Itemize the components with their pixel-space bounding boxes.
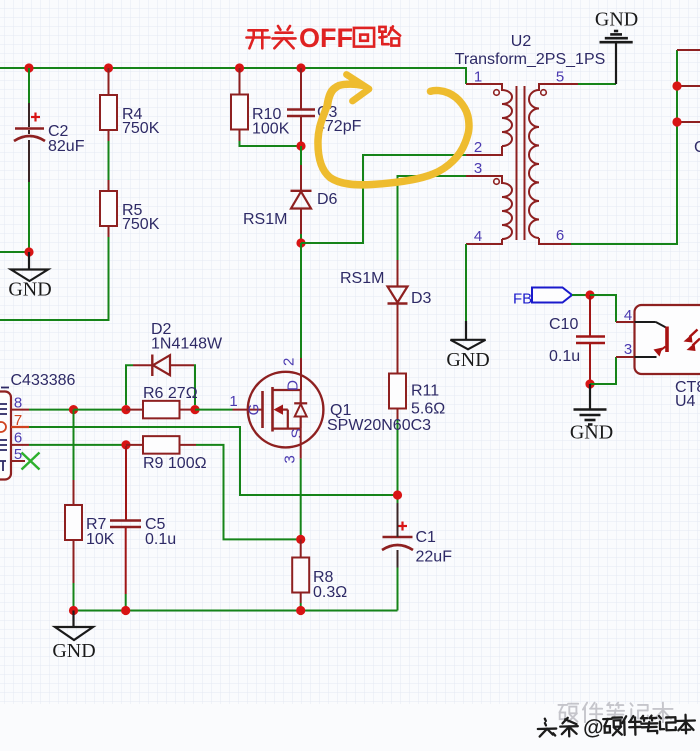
svg-text:U2: U2 [511, 33, 532, 50]
wire C1 bottom lead [397, 568, 399, 611]
svg-text:Transform_2PS_1PS: Transform_2PS_1PS [455, 51, 606, 68]
svg-text:4: 4 [624, 307, 632, 324]
node R9 left / C5 [121, 440, 130, 449]
svg-text:3: 3 [474, 160, 482, 177]
diode D2 [152, 355, 170, 377]
capacitor C5 [110, 519, 141, 522]
svg-text:5: 5 [556, 69, 564, 86]
ground GND top-left [28, 252, 30, 269]
node R6 left / D2 left [121, 405, 130, 414]
svg-text:C6: C6 [694, 139, 700, 156]
node D6 / drain / pin2 branch [296, 238, 305, 247]
node rail / C5 [121, 606, 130, 615]
svg-text:C10: C10 [549, 316, 578, 333]
transformer U2 secondary winding (pins 5-6) [529, 84, 578, 244]
resistor R8 [300, 539, 302, 557]
svg-text:U4: U4 [675, 393, 696, 410]
node top rail / C2 [24, 63, 33, 72]
watermark ghost 硬件笔记本 [558, 703, 672, 723]
transformer U2 core [516, 86, 518, 240]
wire C5 bottom lead [125, 527, 127, 594]
earth ground GND below C10 [574, 384, 607, 425]
power ground GND top-right [600, 31, 633, 42]
svg-text:10K: 10K [86, 531, 115, 548]
connector U1 C433386 body [0, 392, 11, 480]
node top rail / R4 [104, 63, 113, 72]
svg-text:GND: GND [570, 422, 613, 444]
yellow hand-drawn loop annotation [318, 88, 469, 185]
wire pin 5 to GND [578, 83, 616, 85]
optocoupler U4 phototransistor [635, 322, 668, 357]
svg-text:FB: FB [513, 291, 532, 308]
wire C10 bottom lead [589, 343, 591, 384]
node R6 right / gate [190, 405, 199, 414]
resistor R11 [389, 374, 406, 409]
wire off-screen pin top right [677, 49, 700, 51]
wire C2 top lead [28, 68, 30, 103]
optocoupler U4 light arrows [684, 330, 700, 352]
wire C1 top lead [397, 503, 399, 537]
wire R9 right to source node [196, 445, 301, 540]
wire C2 bottom lead [28, 140, 30, 182]
wire D2 right branch [170, 364, 194, 366]
svg-text:2: 2 [474, 139, 482, 156]
optocoupler U4 body [635, 305, 700, 374]
svg-text:@: @ [583, 716, 604, 740]
svg-text:D3: D3 [411, 290, 432, 307]
svg-text:1: 1 [474, 69, 482, 86]
svg-text:750K: 750K [122, 120, 160, 137]
wire R5 bottom to left edge [108, 226, 110, 237]
svg-text:6: 6 [14, 430, 22, 447]
svg-text:5.6Ω: 5.6Ω [411, 401, 445, 418]
wire off-screen pin stub 2 [677, 121, 700, 123]
wire D6 bottom [300, 209, 302, 235]
svg-text:5: 5 [14, 446, 22, 463]
svg-text:R11: R11 [411, 383, 439, 400]
wire C3 node to D6 [300, 146, 302, 165]
svg-text:4: 4 [474, 228, 482, 245]
wire pin 7 net to C1 node [29, 427, 398, 495]
wire gate net [195, 409, 233, 411]
wire R11 bottom [397, 409, 399, 421]
node top rail / R10 [235, 63, 244, 72]
node FB / C10 [585, 290, 594, 299]
ground GND mid (transformer) [451, 340, 486, 350]
wire C10 node to opto pin 4 [590, 295, 616, 322]
svg-text:1N4148W: 1N4148W [151, 336, 223, 353]
red title text 开关OFF回路 [247, 23, 401, 53]
wire D3 to R11 [397, 304, 399, 374]
svg-text:82uF: 82uF [48, 138, 85, 155]
svg-text:SPW20N60C3: SPW20N60C3 [327, 417, 431, 434]
svg-text:750K: 750K [122, 216, 160, 233]
wire FB to C10 node [572, 294, 590, 296]
node right edge 1 [672, 81, 681, 90]
svg-text:2: 2 [280, 358, 297, 366]
svg-text:22uF: 22uF [416, 549, 453, 566]
svg-text:0.3Ω: 0.3Ω [313, 584, 347, 601]
node rail / R7 / GND [69, 606, 78, 615]
svg-text:RS1M: RS1M [243, 211, 287, 228]
wire D2 left branch [133, 364, 152, 366]
transistor Q1 SPW20N60C3 [248, 372, 324, 448]
svg-text:GND: GND [52, 640, 95, 662]
wire transformer pin 4 to GND [466, 243, 502, 245]
watermark 头条 @硬件笔记本 [538, 713, 696, 740]
resistor R7 [65, 505, 82, 540]
wire R8 bottom lead [300, 593, 302, 604]
node R10/C3/D6 [296, 141, 305, 150]
diode D6 [291, 191, 312, 209]
resistor R9 [126, 444, 143, 446]
svg-text:1: 1 [229, 393, 237, 410]
svg-text:3: 3 [624, 341, 632, 358]
port FB [532, 288, 572, 303]
svg-text:D6: D6 [317, 191, 338, 208]
diode D3 [388, 287, 408, 304]
svg-text:8: 8 [14, 395, 22, 412]
wire bottom ground rail [74, 610, 398, 612]
wire top rail to transformer pin 1 [0, 68, 466, 84]
svg-text:R9 100Ω: R9 100Ω [143, 455, 207, 472]
svg-text:D: D [285, 380, 302, 391]
node pin8/R7 [69, 405, 78, 414]
capacitor C10 [576, 335, 605, 338]
resistor R4 [108, 68, 110, 95]
yellow arrow annotation [328, 75, 370, 107]
svg-text:G: G [246, 404, 263, 416]
wire R10 bottom to C3 node [239, 130, 241, 142]
capacitor C1 [382, 522, 413, 551]
resistor R5 [100, 191, 117, 226]
capacitor C3 [300, 68, 302, 109]
node rail / R8 [296, 606, 305, 615]
wire source [300, 429, 302, 459]
transformer U2 primary winding 2 (pins 3-4) [466, 176, 512, 244]
resistor R10 [239, 68, 241, 95]
node right edge 2 [672, 117, 681, 126]
node C10 / GND [585, 379, 594, 388]
connector pin 6 [11, 444, 29, 446]
wire C10 top lead [589, 295, 591, 336]
resistor R6 [126, 409, 143, 411]
transformer U2 primary winding 1 (pins 1-2) [466, 84, 512, 155]
wire drain node to transformer pin 2 [301, 155, 466, 243]
svg-text:R6 27Ω: R6 27Ω [143, 385, 198, 402]
wire R4-R5 [108, 130, 110, 141]
wire pin 8 net [29, 409, 74, 411]
no-ERC marker X on pin 5 [22, 453, 40, 470]
wire pin 6 to right-edge net [539, 243, 571, 245]
node top rail / C3 [296, 63, 305, 72]
svg-text:C1: C1 [416, 529, 437, 546]
svg-text:0.1u: 0.1u [549, 348, 580, 365]
svg-text:100K: 100K [252, 121, 290, 138]
wire transformer pin 3 to D3 [398, 176, 467, 260]
wire off-screen pin stub 1 [677, 85, 700, 87]
connector pin 7 [11, 426, 29, 428]
svg-text:OFF: OFF [299, 23, 353, 53]
svg-text:3: 3 [282, 455, 299, 463]
wire R7 branch [73, 410, 75, 480]
wire transformer pin 2 lead [466, 154, 478, 156]
svg-text:GND: GND [595, 9, 638, 31]
svg-text:0.1u: 0.1u [145, 531, 176, 548]
wire left edge to GND node [0, 251, 29, 253]
node source / R8 [296, 535, 305, 544]
svg-text:GND: GND [446, 349, 489, 371]
wire pin 6 net [29, 444, 126, 446]
wire drain [300, 243, 302, 358]
node C2 / GND [24, 247, 33, 256]
svg-text:GND: GND [8, 279, 51, 301]
wire C10 gnd node to opto pin 3 [590, 357, 616, 384]
svg-text:C433386: C433386 [11, 372, 76, 389]
svg-text:RS1M: RS1M [340, 270, 384, 287]
capacitor C2 [14, 113, 45, 142]
connector pin 5 (no connect) [11, 460, 25, 462]
svg-text:7: 7 [14, 412, 22, 429]
wire pin8 node to R6 node [74, 409, 127, 411]
wire C5 top lead [125, 446, 127, 520]
wire R7 bottom lead [73, 540, 75, 583]
svg-text:S: S [289, 428, 306, 438]
connector pin 8 [11, 409, 29, 411]
svg-text:6: 6 [556, 227, 564, 244]
ground GND bottom-left [72, 611, 74, 627]
node C1 / R11 / pin7 net [393, 490, 402, 499]
